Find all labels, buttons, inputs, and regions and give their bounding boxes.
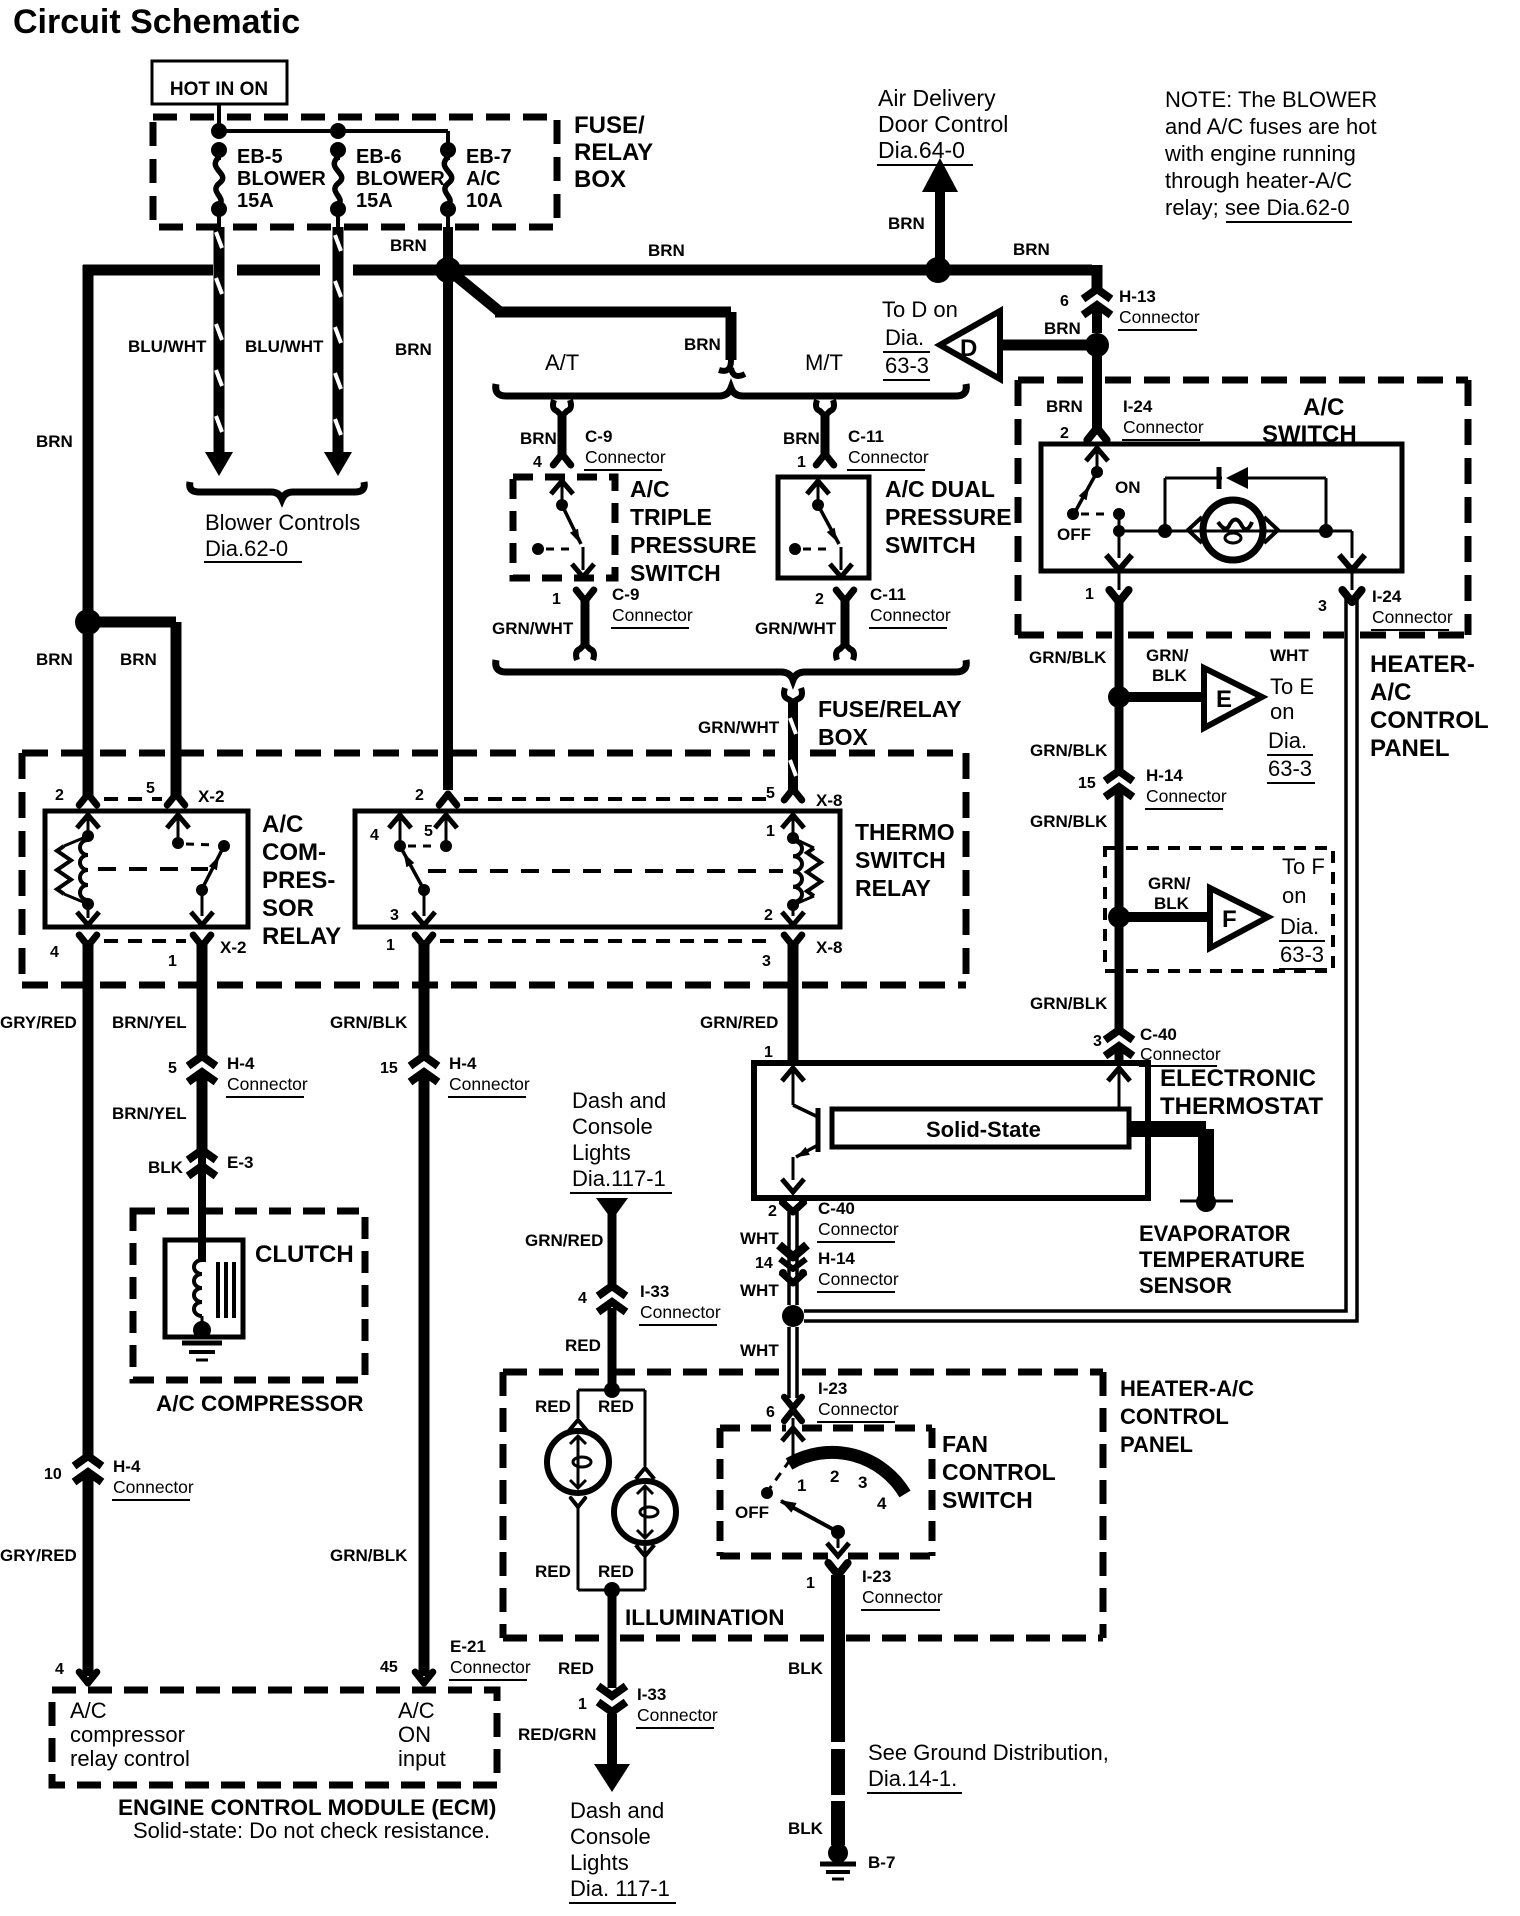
svg-text:Dia.62-0: Dia.62-0 — [205, 536, 288, 561]
svg-text:GRN/RED: GRN/RED — [700, 1013, 778, 1032]
svg-text:A/C: A/C — [1370, 679, 1411, 706]
wire: bus to pressure switches — [444, 266, 745, 376]
svg-text:H-14: H-14 — [818, 1249, 855, 1268]
svg-text:GRN/BLK: GRN/BLK — [1030, 994, 1108, 1013]
label To F on Dia 63-3 — [1279, 854, 1327, 969]
label I-23 Connector (pin1) — [861, 1567, 943, 1610]
label GRN/WHT (X-8) — [698, 718, 780, 737]
brace: A/T M/T — [496, 384, 967, 396]
svg-text:H-14: H-14 — [1146, 766, 1183, 785]
svg-text:H-13: H-13 — [1119, 287, 1156, 306]
connector I-23 pin1 — [828, 1563, 847, 1575]
svg-text:RED: RED — [598, 1562, 634, 1581]
svg-text:ENGINE CONTROL MODULE (ECM): ENGINE CONTROL MODULE (ECM) — [118, 1795, 496, 1820]
svg-text:3: 3 — [762, 953, 771, 970]
label EB-5 — [237, 146, 326, 212]
svg-text:5: 5 — [146, 780, 155, 797]
connector C-11 (top) — [816, 400, 834, 465]
svg-text:I-23: I-23 — [818, 1379, 847, 1398]
svg-text:Door Control: Door Control — [878, 111, 1008, 137]
svg-text:Connector: Connector — [585, 447, 666, 467]
svg-text:A/C: A/C — [262, 811, 303, 838]
label EVAPORATOR TEMPERATURE SENSOR — [1139, 1221, 1305, 1298]
svg-text:RED/GRN: RED/GRN — [518, 1725, 596, 1744]
svg-text:Connector: Connector — [637, 1705, 718, 1725]
svg-text:BLU/WHT: BLU/WHT — [245, 337, 324, 356]
svg-text:Air Delivery: Air Delivery — [878, 85, 996, 111]
svg-text:2: 2 — [415, 787, 424, 804]
svg-text:Connector: Connector — [818, 1269, 899, 1289]
svg-text:A/T: A/T — [545, 350, 579, 375]
svg-text:EB-7: EB-7 — [466, 146, 512, 168]
svg-text:THERMO: THERMO — [855, 819, 955, 845]
label BRN/YEL (top) — [112, 1013, 187, 1032]
fuse EB-5 BLOWER 15A — [211, 150, 227, 227]
svg-text:1: 1 — [764, 1044, 773, 1061]
label A/C COMPRESSOR — [156, 1391, 364, 1416]
label BLU/WHT right — [245, 337, 324, 356]
heater a/c control panel box (dashed) — [503, 1372, 1103, 1638]
label 14 (H-14) — [755, 1255, 773, 1272]
label WHT (1) — [740, 1229, 779, 1248]
svg-text:GRN/WHT: GRN/WHT — [698, 718, 780, 737]
svg-text:6: 6 — [1060, 293, 1069, 310]
junction dot at EB-7/bus — [435, 257, 461, 283]
label 4 (X-2 bottom) — [50, 944, 59, 961]
svg-text:PRES-: PRES- — [262, 867, 335, 894]
svg-text:3: 3 — [1318, 598, 1327, 615]
label THERMO SWITCH RELAY — [855, 819, 955, 901]
label ELECTRONIC THERMOSTAT — [1160, 1065, 1323, 1120]
label C-40 Connector (right) — [1139, 1025, 1221, 1066]
label To D on Dia. 63-3 — [882, 297, 958, 380]
label ILLUMINATION — [625, 1605, 785, 1630]
label 1 (X-2 bottom) — [168, 953, 177, 970]
relay coil (A/C compressor relay) — [57, 815, 99, 925]
label BRN (bus left) — [390, 236, 427, 255]
wire arrow up: air delivery — [922, 158, 958, 270]
svg-text:3: 3 — [858, 1473, 867, 1492]
connector H-4 pin10 — [44, 1456, 194, 1500]
svg-text:2: 2 — [764, 907, 773, 924]
svg-text:compressor: compressor — [70, 1722, 185, 1747]
label GRY/RED (bottom) — [0, 1546, 77, 1565]
svg-text:BRN: BRN — [684, 335, 721, 354]
label C-9 Connector (bottom) — [611, 585, 693, 628]
connector I-24 pin1 — [1109, 590, 1128, 602]
label BRN (diagonal) — [684, 335, 721, 354]
label Dash and Console Lights Dia.117-1 — [570, 1088, 672, 1193]
illumination lamp 1 — [547, 1420, 609, 1590]
connector X-8 (bottom forks) — [415, 935, 802, 946]
wire to F triangle — [1119, 912, 1210, 922]
svg-text:RELAY: RELAY — [855, 875, 931, 901]
wire double below thermostat — [789, 1212, 797, 1398]
label 2 (X-8 top) — [415, 787, 424, 804]
svg-text:1: 1 — [386, 937, 395, 954]
svg-text:X-2: X-2 — [198, 787, 224, 806]
label M/T — [805, 350, 843, 375]
svg-text:BRN: BRN — [395, 340, 432, 359]
svg-text:BRN: BRN — [648, 241, 685, 260]
label A/C SWITCH — [1262, 394, 1357, 448]
label C-11 Connector (bottom) — [869, 585, 951, 628]
svg-text:B-7: B-7 — [868, 1853, 895, 1872]
svg-text:3: 3 — [390, 907, 399, 924]
svg-text:WHT: WHT — [740, 1341, 779, 1360]
wire: left BRN continues to relay — [83, 622, 94, 795]
label 5 X-8 — [766, 785, 842, 810]
label RED/GRN — [518, 1725, 596, 1744]
svg-text:WHT: WHT — [740, 1281, 779, 1300]
engine control module box (dashed) — [52, 1690, 497, 1785]
svg-text:HEATER-: HEATER- — [1370, 651, 1475, 678]
connector X-2 (top forks) — [79, 794, 185, 805]
svg-text:H-4: H-4 — [449, 1054, 477, 1073]
svg-text:4: 4 — [578, 1290, 587, 1307]
label H-14 Connector (mid) — [817, 1249, 899, 1292]
wire BLU/WHT from EB-6 (arrow down) — [324, 227, 352, 476]
svg-text:BRN: BRN — [520, 429, 557, 448]
label BRN (x88) — [36, 650, 73, 669]
ground (clutch) — [182, 1343, 222, 1360]
label BRN 1 (C-11 top) — [783, 429, 820, 471]
svg-text:X-8: X-8 — [816, 938, 842, 957]
label FAN CONTROL SWITCH — [942, 1431, 1056, 1513]
svg-text:ELECTRONIC: ELECTRONIC — [1160, 1065, 1316, 1092]
svg-text:Circuit Schematic: Circuit Schematic — [13, 3, 300, 41]
clutch box — [165, 1240, 243, 1337]
label Dash and Console Lights Dia 117-1 (bottom) — [569, 1798, 676, 1903]
wire: branch to X-2 pin 5 — [88, 622, 176, 795]
wire: main BRN bus — [83, 265, 1097, 290]
svg-text:BRN: BRN — [390, 236, 427, 255]
label RED (out) — [558, 1659, 594, 1678]
svg-text:Connector: Connector — [450, 1657, 531, 1677]
note text block — [1164, 87, 1377, 222]
svg-text:BRN: BRN — [1044, 319, 1081, 338]
svg-text:3: 3 — [1093, 1033, 1102, 1050]
svg-text:I-33: I-33 — [640, 1282, 669, 1301]
svg-text:RELAY: RELAY — [262, 923, 341, 950]
label WHT (3) — [740, 1341, 779, 1360]
label I-24 Connector (bottom) — [1371, 587, 1453, 630]
svg-text:GRN/BLK: GRN/BLK — [1030, 741, 1108, 760]
svg-text:2: 2 — [1060, 425, 1069, 442]
svg-text:relay; see Dia.62-0: relay; see Dia.62-0 — [1165, 195, 1350, 220]
svg-text:CONTROL: CONTROL — [1370, 707, 1489, 734]
svg-text:RED: RED — [535, 1562, 571, 1581]
svg-text:BRN: BRN — [120, 650, 157, 669]
fuse EB-6 BLOWER 15A — [330, 150, 346, 227]
svg-text:GRN/WHT: GRN/WHT — [492, 619, 574, 638]
svg-text:Console: Console — [570, 1824, 651, 1849]
svg-text:RELAY: RELAY — [574, 139, 653, 166]
svg-text:45: 45 — [380, 1659, 398, 1676]
svg-text:Connector: Connector — [1119, 307, 1200, 327]
evaporator sensor wire — [1129, 1129, 1206, 1196]
svg-text:Dia.117-1: Dia.117-1 — [572, 1166, 666, 1191]
label X-2 (bottom) — [220, 938, 246, 957]
label 2 (C-40) — [768, 1203, 777, 1220]
svg-text:5: 5 — [168, 1060, 177, 1077]
label BRN (H-13) — [1044, 319, 1081, 338]
svg-text:C-9: C-9 — [612, 585, 639, 604]
label 4 (I-33) — [578, 1290, 587, 1307]
thermo relay coil — [764, 815, 821, 925]
label 1 (X-8 bottom) — [386, 937, 395, 954]
junction dot E branch — [1108, 686, 1130, 708]
svg-text:on: on — [1282, 883, 1306, 908]
svg-text:GRN/: GRN/ — [1148, 874, 1191, 893]
svg-text:ILLUMINATION: ILLUMINATION — [625, 1605, 785, 1630]
ground B-7 — [820, 1843, 856, 1879]
connector I-33 pin1 — [598, 1686, 626, 1712]
svg-text:SWITCH: SWITCH — [942, 1487, 1033, 1513]
svg-text:Blower Controls: Blower Controls — [205, 510, 360, 535]
wire RED into panel — [608, 1308, 617, 1390]
svg-text:Connector: Connector — [113, 1477, 194, 1497]
svg-text:BLOWER: BLOWER — [237, 168, 326, 190]
connector H-4 pin5 — [168, 1054, 308, 1097]
label GRN/ BLK (E) — [1146, 646, 1189, 685]
svg-text:BLK: BLK — [148, 1158, 184, 1177]
svg-text:1: 1 — [797, 1476, 806, 1495]
junction dot at air-delivery branch — [925, 257, 951, 283]
label WHT (E col) — [1270, 646, 1309, 665]
svg-text:FUSE/RELAY: FUSE/RELAY — [818, 696, 962, 722]
svg-text:1: 1 — [766, 823, 775, 840]
label See Ground Distribution — [867, 1740, 1109, 1793]
label 45 (ECM) — [380, 1659, 398, 1676]
svg-text:GRN/BLK: GRN/BLK — [330, 1013, 408, 1032]
label I-23 Connector (pin6) — [817, 1379, 899, 1422]
svg-text:Console: Console — [572, 1114, 653, 1139]
connector H-14 pin14 — [779, 1245, 807, 1283]
label 3 (X-8 bottom) — [762, 953, 771, 970]
svg-text:Connector: Connector — [1372, 607, 1453, 627]
svg-text:Connector: Connector — [227, 1074, 308, 1094]
svg-text:GRN/WHT: GRN/WHT — [755, 619, 837, 638]
svg-text:Connector: Connector — [818, 1399, 899, 1419]
label A/C COMPRESSOR RELAY — [262, 811, 341, 950]
svg-text:BOX: BOX — [818, 724, 869, 750]
fuse/relay box label — [574, 112, 653, 193]
label Blower Controls Dia.62-0 — [204, 510, 360, 562]
label WHT (2) — [740, 1281, 779, 1300]
label BRN/YEL (mid) — [112, 1104, 187, 1123]
svg-text:4: 4 — [877, 1494, 887, 1513]
label 4 (ECM) — [55, 1661, 64, 1678]
thermo relay switch — [370, 815, 457, 925]
wire: HOT IN ON to fuses — [219, 104, 448, 152]
svg-text:15A: 15A — [237, 190, 274, 212]
svg-text:BRN: BRN — [36, 432, 73, 451]
svg-text:63-3: 63-3 — [1280, 942, 1324, 967]
label 1 (I-33 pin1) — [578, 1696, 587, 1713]
label RED (lamp2) — [598, 1397, 634, 1416]
label RED (lamp2 bottom) — [598, 1562, 634, 1581]
svg-text:NOTE: The BLOWER: NOTE: The BLOWER — [1165, 87, 1377, 112]
label BLK (1) — [788, 1659, 824, 1678]
svg-text:Dia. 117-1: Dia. 117-1 — [570, 1876, 670, 1901]
fan control switch box (dashed) — [720, 1428, 932, 1556]
wire into clutch — [198, 1152, 206, 1262]
svg-text:10: 10 — [44, 1466, 62, 1483]
label BRN (below fuse EB-7) — [395, 340, 432, 359]
svg-text:I-24: I-24 — [1372, 587, 1402, 606]
junction dot left BRN — [75, 609, 101, 635]
label 1 (thermostat in) — [764, 1044, 773, 1061]
svg-text:CLUTCH: CLUTCH — [255, 1241, 354, 1268]
svg-text:HEATER-A/C: HEATER-A/C — [1120, 1376, 1254, 1401]
svg-text:1: 1 — [168, 953, 177, 970]
arrow triangle F — [1210, 888, 1268, 948]
wire GRN/BLK into thermostat — [1108, 1068, 1130, 1109]
svg-text:Connector: Connector — [1123, 417, 1204, 437]
A/C compressor relay box — [45, 811, 248, 927]
label EB-6 — [356, 146, 445, 212]
label GRN/RED (x793) — [700, 1013, 778, 1032]
label 15 (H-14) — [1078, 775, 1096, 792]
svg-text:GRN/BLK: GRN/BLK — [330, 1546, 408, 1565]
svg-text:Dia.: Dia. — [1280, 914, 1319, 939]
svg-text:SOR: SOR — [262, 895, 314, 922]
label Air Delivery Door Control Dia.64-0 — [877, 85, 1008, 165]
label I-24 Connector (top) — [1122, 397, 1204, 440]
label GRN/BLK (top) — [330, 1013, 408, 1032]
A/C dual pressure switch box — [778, 477, 869, 578]
svg-text:Connector: Connector — [640, 1302, 721, 1322]
svg-text:C-40: C-40 — [818, 1199, 855, 1218]
label BRN (air delivery) — [888, 214, 925, 233]
label GRN/BLK (4) — [1030, 994, 1108, 1013]
svg-text:RED: RED — [535, 1397, 571, 1416]
label GRN/BLK (2) — [1030, 741, 1108, 760]
junction dot illum top — [604, 1382, 620, 1398]
svg-text:WHT: WHT — [740, 1229, 779, 1248]
label A/C TRIPLE PRESSURE SWITCH — [630, 476, 757, 586]
svg-text:Lights: Lights — [570, 1850, 629, 1875]
svg-text:BLK: BLK — [1152, 666, 1188, 685]
svg-text:through heater-A/C: through heater-A/C — [1165, 168, 1352, 193]
svg-text:4: 4 — [50, 944, 59, 961]
label 3 (C-40) — [1093, 1033, 1102, 1050]
label C-40 Connector (mid) — [817, 1199, 899, 1242]
label BRN 4 (C-9 top) — [520, 429, 557, 471]
svg-text:Connector: Connector — [449, 1074, 530, 1094]
svg-text:Dia.: Dia. — [1268, 728, 1307, 753]
svg-text:E-21: E-21 — [450, 1637, 486, 1656]
label 2 C-11 (bottom) — [815, 591, 824, 608]
svg-text:I-23: I-23 — [862, 1567, 891, 1586]
svg-text:H-4: H-4 — [227, 1054, 255, 1073]
label HEATER-A/C CONTROL PANEL (top) — [1370, 651, 1489, 762]
label C-9 Connector (top) — [584, 427, 666, 470]
svg-text:PRESSURE: PRESSURE — [630, 532, 757, 558]
svg-text:6: 6 — [766, 1404, 775, 1421]
svg-text:Dia.: Dia. — [885, 325, 924, 350]
label Solid-state do not check — [133, 1818, 490, 1843]
svg-text:4: 4 — [370, 827, 379, 844]
solid-state box — [832, 1109, 1129, 1147]
label GRN/WHT (left) — [492, 619, 574, 638]
svg-text:Lights: Lights — [572, 1140, 631, 1165]
svg-text:E: E — [1216, 686, 1232, 713]
svg-text:RED: RED — [598, 1397, 634, 1416]
svg-text:Connector: Connector — [1140, 1044, 1221, 1064]
wire BRN/YEL — [197, 941, 208, 1152]
connector I-23 pin6 — [784, 1397, 802, 1421]
svg-text:See Ground Distribution,: See Ground Distribution, — [868, 1740, 1109, 1765]
svg-text:GRY/RED: GRY/RED — [0, 1013, 77, 1032]
svg-text:A/C: A/C — [398, 1698, 435, 1723]
label RED (feed) — [565, 1336, 601, 1355]
label 3 (I-24) — [1318, 598, 1327, 615]
label GRN/BLK (bottom) — [330, 1546, 408, 1565]
label 6 (I-23) — [766, 1404, 775, 1421]
svg-text:BLK: BLK — [788, 1659, 824, 1678]
svg-text:BRN/YEL: BRN/YEL — [112, 1104, 187, 1123]
svg-text:1: 1 — [806, 1575, 815, 1592]
label ENGINE CONTROL MODULE (ECM) — [118, 1795, 496, 1820]
svg-text:10A: 10A — [466, 190, 503, 212]
svg-text:BRN: BRN — [36, 650, 73, 669]
arrow triangle D — [940, 311, 1000, 379]
label A/T — [545, 350, 579, 375]
svg-text:2: 2 — [815, 591, 824, 608]
label CLUTCH — [255, 1241, 354, 1268]
svg-text:Solid-state: Do not check resi: Solid-state: Do not check resistance. — [133, 1818, 490, 1843]
brace: to fuse/relay box — [496, 660, 967, 680]
svg-text:5: 5 — [424, 823, 433, 840]
svg-text:A/C: A/C — [1303, 394, 1344, 421]
label GRN/BLK (1) — [1029, 648, 1107, 667]
svg-text:To D on: To D on — [882, 297, 958, 322]
label E-21 Connector — [449, 1637, 531, 1680]
a/c compressor box (dashed) — [133, 1211, 365, 1380]
svg-text:I-24: I-24 — [1123, 397, 1153, 416]
svg-text:C-9: C-9 — [585, 427, 612, 446]
relay switch (A/C compressor relay) — [167, 815, 230, 925]
connector C-11 (bottom) — [836, 590, 854, 660]
svg-text:15: 15 — [380, 1060, 398, 1077]
svg-text:A/C COMPRESSOR: A/C COMPRESSOR — [156, 1391, 364, 1416]
fan switch wiper — [761, 1418, 905, 1556]
svg-text:A/C: A/C — [630, 476, 670, 502]
label 1 (I-23 pin1) — [806, 1575, 815, 1592]
arrow triangle E — [1204, 668, 1262, 728]
svg-text:14: 14 — [755, 1255, 773, 1272]
connector X-2 (bottom forks) — [79, 935, 211, 946]
svg-text:To E: To E — [1270, 674, 1314, 699]
svg-text:EVAPORATOR: EVAPORATOR — [1139, 1221, 1291, 1246]
svg-text:63-3: 63-3 — [1268, 756, 1312, 781]
wire: EB-7 down to thermo relay — [443, 227, 453, 790]
a/c switch contact — [1067, 448, 1125, 537]
label BRN (x176) — [120, 650, 157, 669]
svg-text:TEMPERATURE: TEMPERATURE — [1139, 1247, 1305, 1272]
label H-13 Connector — [1118, 287, 1200, 330]
svg-text:SWITCH: SWITCH — [855, 847, 946, 873]
label OFF — [1057, 525, 1091, 544]
label ON — [1115, 478, 1141, 497]
label EB-7 — [466, 146, 512, 212]
svg-text:5: 5 — [766, 785, 775, 802]
svg-text:Dia.64-0: Dia.64-0 — [878, 137, 965, 163]
svg-text:BOX: BOX — [574, 166, 626, 193]
svg-text:ON: ON — [1115, 478, 1141, 497]
